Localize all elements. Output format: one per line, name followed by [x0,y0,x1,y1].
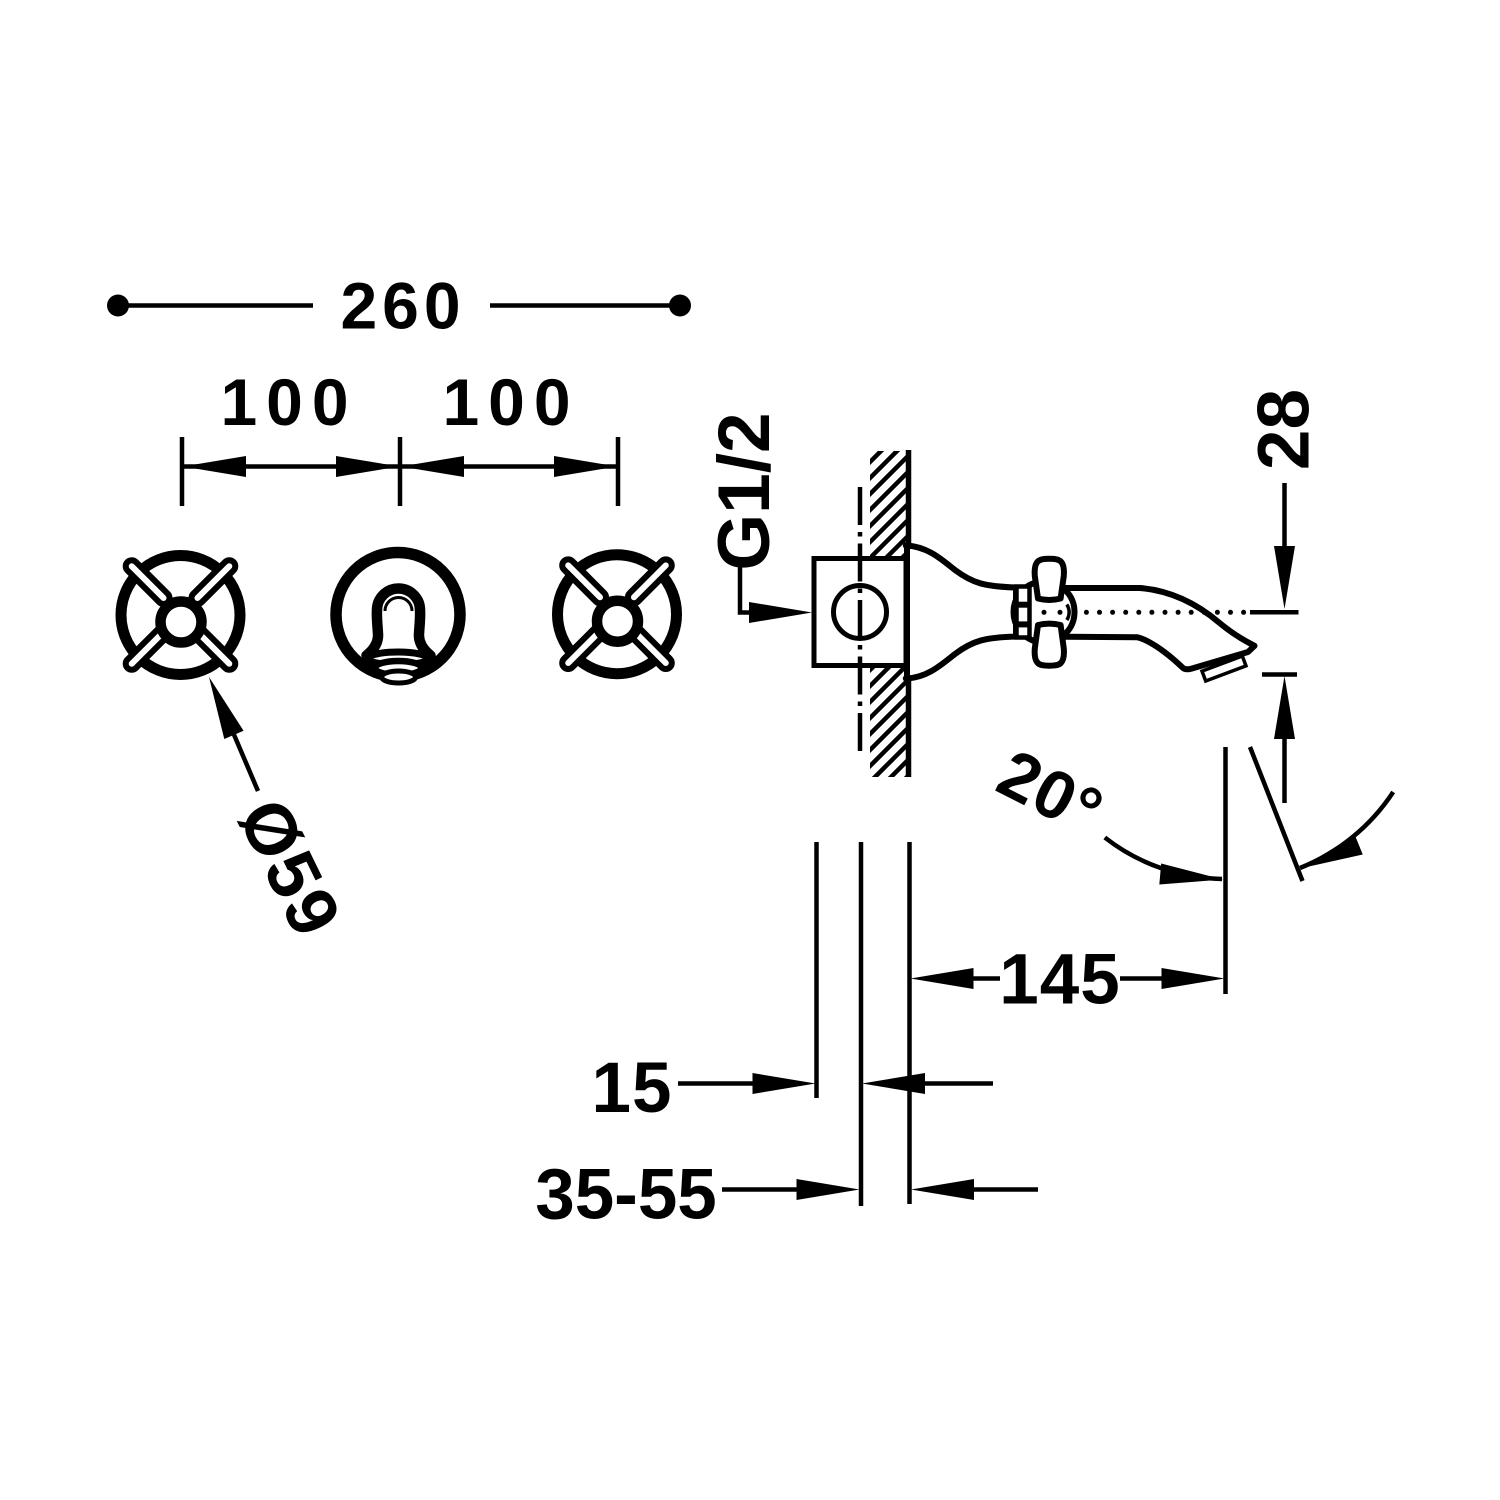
wall hatching (section) [860,396,920,856]
extension line: body rear plane [814,842,819,1098]
svg-text:G1/2: G1/2 [704,412,785,570]
left cross handle (front view) [121,556,240,675]
dimension 35-55: right line segment [974,1187,1038,1192]
svg-text:35-55: 35-55 [535,1156,717,1235]
angle 20 deg: left arc [1105,838,1222,880]
cross handle upper spoke (side view) [1035,559,1064,600]
dimension 35-55: left-pointing arrowhead [911,1179,974,1200]
aerator outlet nozzle [1202,656,1246,681]
label Ø59: leader line [232,730,258,791]
angle 20 deg: right arc [1300,792,1393,868]
dimension 15: left-pointing arrowhead [862,1073,925,1094]
collar stem line upper [1017,602,1031,608]
angle 20 deg: slanted stream line [1250,747,1303,881]
dimension 15: right line segment [925,1081,993,1086]
dimension 100 right: right tick [616,437,621,506]
dimension 100 left: right arrowhead [336,456,399,477]
svg-text:260: 260 [340,269,465,343]
svg-text:100: 100 [220,365,357,439]
handle hub circle (side view) [1014,582,1075,643]
dimension 145: left arrowhead [911,968,974,989]
dimension 145: right line segment [1120,976,1165,981]
dimension 260: left line segment [122,303,313,308]
trumpet escutcheon bottom lip bump [903,675,909,681]
dimension 15: left line segment [678,1081,755,1086]
dimension 28: down arrowhead [1274,546,1295,609]
dimension 145: left line segment [973,976,1000,981]
dimension 100 left: dimension line [182,464,400,469]
svg-text:100: 100 [442,365,579,439]
dimension 100 right: dimension line [400,464,618,469]
label G1/2: leader line [740,565,753,613]
dimension 260: right end dot [669,295,691,317]
dimension 28: lower tick [1262,672,1297,677]
dimension 100 right: center tick [398,437,403,506]
dimension 100 right: left arrowhead [401,456,464,477]
label G1/2: leader arrowhead [749,602,812,623]
dimension 100 left: left arrowhead [183,456,246,477]
svg-text:28: 28 [1244,389,1325,470]
hub inner arc detail [1067,605,1069,621]
dimension 15: right-pointing arrowhead [753,1073,816,1094]
dimension 100 left: left tick [180,437,185,506]
cross handle lower spoke (side view) [1035,624,1064,666]
extension line: body center plane [859,842,864,1206]
dimension 260: left end dot [107,295,129,317]
wall surface line [906,450,912,777]
dimension 28: lower extension line [1282,738,1287,803]
dimension 35-55: left line segment [722,1187,797,1192]
angle 20 deg: right arc arrowhead [1296,835,1362,878]
angle 20 deg: left arc arrowhead [1159,864,1224,890]
spout trumpet escutcheon (side view) [907,546,1016,679]
label Ø59: leader arrowhead [199,673,243,739]
dotted horizontal centerline of spout [1042,610,1247,615]
svg-text:145: 145 [999,941,1120,1020]
dimension 35-55: right-pointing arrowhead [797,1179,860,1200]
dimension 28: up arrowhead [1274,676,1295,739]
vertical dash-dot centerline of valve body [858,487,863,751]
dimension 260: right line segment [490,303,676,308]
spout collar ring [1017,587,1030,638]
center spout (front view) [336,553,460,684]
dimension 28: upper extension line [1282,483,1287,548]
collar stem line lower [1017,621,1031,627]
centerline end tick [1250,610,1299,615]
in-wall valve body square (side view) [814,559,906,666]
extension line: wall surface plane [907,842,912,1204]
right cross handle (front view) [558,555,677,674]
valve inlet circle [834,586,887,639]
svg-text:15: 15 [592,1049,673,1128]
trumpet escutcheon top lip bump [903,542,909,548]
dimension 100 right: right arrowhead [554,456,617,477]
spout body (side view) [1031,588,1255,669]
angle 20 deg: vertical reference line [1223,747,1228,994]
dimension 145: right arrowhead [1162,968,1225,989]
